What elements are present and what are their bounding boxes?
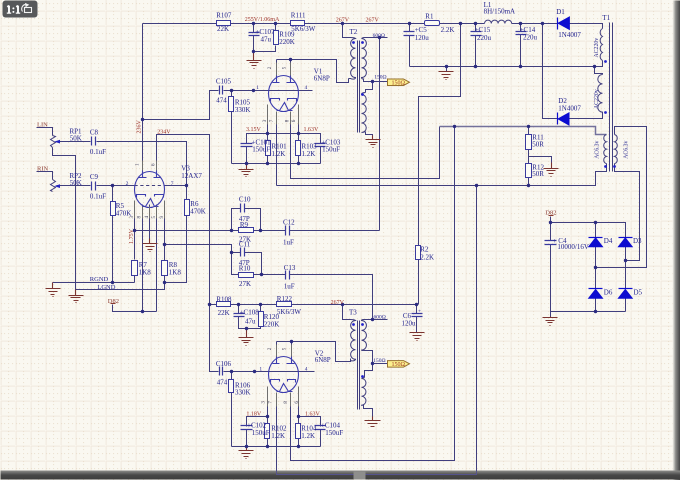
- wire R2 feed from B+: [419, 24, 461, 246]
- wire R5 top lead: [112, 186, 114, 202]
- ground at C6: [410, 333, 425, 341]
- wire V1 heater left to heater net: [276, 113, 278, 186]
- wire T3 tap drop to lower secondary: [364, 351, 373, 378]
- junction R5 bottom RGND: [111, 281, 114, 284]
- wire V3 plate1 236V riser to R107: [142, 24, 144, 171]
- wire C15 leads: [475, 24, 477, 67]
- junction C102 bottom: [245, 445, 248, 448]
- svg-text:1.2K: 1.2K: [272, 150, 286, 158]
- svg-text:1.18V: 1.18V: [246, 411, 262, 417]
- wire R105 top lead: [231, 91, 233, 97]
- tube V3 envelope: [135, 172, 165, 208]
- capacitor C104 electrolytic: [315, 426, 326, 430]
- transformer T1 left heater winding: [604, 135, 607, 164]
- svg-text:LGND: LGND: [97, 284, 115, 291]
- junction T2 600ohm feedback: [378, 36, 381, 39]
- transformer T2 secondary winding lower: [362, 93, 367, 133]
- phase dot T3 secondary lower: [361, 375, 364, 378]
- resistor R6: [185, 200, 190, 216]
- svg-text:AC6.3v: AC6.3v: [595, 141, 601, 159]
- wire T2 tap jog to lower secondary: [366, 82, 373, 93]
- resistor R2: [416, 246, 421, 260]
- svg-text:600Ω: 600Ω: [374, 314, 386, 320]
- svg-text:267V: 267V: [336, 17, 350, 23]
- ground at C108: [239, 329, 254, 346]
- wire R103 leads: [298, 134, 300, 164]
- svg-text:330K: 330K: [235, 389, 251, 397]
- tube V2 pin stubs: [268, 345, 299, 407]
- phase dot T1 right heater: [613, 165, 616, 168]
- ground at C107: [247, 52, 262, 69]
- phase dot T2 primary: [352, 41, 355, 44]
- resistor R11: [526, 135, 532, 150]
- svg-text:C11: C11: [239, 240, 251, 248]
- svg-text:2.2K: 2.2K: [420, 253, 434, 261]
- junction C108 top: [237, 303, 240, 306]
- wire C14 leads: [520, 24, 522, 67]
- wire D3 D5 column: [625, 247, 627, 312]
- resistor R102: [265, 424, 270, 439]
- wire RP2 wiper to C9: [57, 185, 91, 187]
- diode D1 1N4007: [557, 18, 559, 30]
- phase dot T2 secondary: [361, 41, 364, 44]
- wire V1 cathode upper right C103: [268, 134, 321, 144]
- wire V1 plate pins to T2 primary: [277, 60, 349, 83]
- svg-text:6N8P: 6N8P: [315, 356, 331, 364]
- window right shadow: [0, 0, 1, 1]
- wire R8 top lead: [164, 245, 166, 261]
- svg-text:220K: 220K: [264, 321, 280, 329]
- junction C5 top: [408, 22, 411, 25]
- junction D2 feed tap: [541, 22, 544, 25]
- resistor R104: [296, 424, 301, 439]
- wire ground stem below C4: [550, 312, 552, 317]
- svg-text:R107: R107: [216, 12, 232, 20]
- svg-text:D5: D5: [634, 288, 643, 296]
- phase dot T2 secondary lower: [361, 93, 364, 96]
- wire R106 top lead: [231, 372, 233, 380]
- junction D4 top: [594, 221, 597, 224]
- tube V1 plates: [273, 76, 295, 83]
- wire V2 cathode upper left C102: [247, 417, 268, 427]
- capacitor C13: [286, 271, 290, 280]
- wire R7 bottom to RGND: [134, 275, 136, 283]
- wire V2 heater loop redrawn over bottom bar: [277, 471, 477, 475]
- junction C15 top: [474, 22, 477, 25]
- net label D82 stub right: [549, 215, 554, 217]
- junction C101 bottom: [245, 162, 248, 165]
- wire heater net Y185 to T1 heater winding: [277, 164, 607, 186]
- capacitor C11: [241, 248, 245, 257]
- wire R8 bottom lead: [164, 275, 166, 283]
- wire V2 plate pins to T3 primary: [277, 342, 351, 362]
- svg-text:T3: T3: [349, 309, 357, 317]
- tube V2 envelope: [269, 357, 299, 393]
- junction C9 R5: [111, 184, 114, 187]
- svg-text:C105: C105: [216, 78, 232, 86]
- wire C101 bottom lead: [246, 147, 248, 164]
- ground at V2 cathode: [239, 447, 254, 459]
- wire T1 right heater winding top: [596, 127, 647, 268]
- junction R11 top: [527, 125, 530, 128]
- svg-text:220u: 220u: [477, 34, 492, 42]
- potentiometer RP1: [51, 136, 56, 148]
- zoom chip 1:1: [3, 1, 38, 18]
- wire D82 net label stub: [113, 305, 157, 312]
- wire R12 bottom to Y185: [528, 178, 530, 186]
- svg-text:R111: R111: [291, 12, 306, 20]
- wire T2 secondary 600ohm stub: [364, 37, 388, 39]
- transformer T1 lower primary winding: [598, 75, 603, 113]
- resistor R5: [111, 202, 116, 216]
- diode D4: [589, 237, 603, 239]
- capacitor C14 electrolytic: [516, 32, 527, 35]
- svg-text:C106: C106: [216, 360, 232, 368]
- svg-text:150Ω: 150Ω: [373, 358, 385, 364]
- wire 236V junction to C105: [143, 91, 219, 120]
- junction D82 net V3 heater: [141, 310, 144, 313]
- svg-text:150Ω: 150Ω: [392, 81, 406, 87]
- junction C14 bottom: [519, 65, 522, 68]
- svg-text:1uF: 1uF: [283, 238, 294, 246]
- transformer T1 upper primary winding: [600, 29, 602, 61]
- wire C9 to V3 grid pin2: [97, 185, 135, 187]
- resistor R8: [162, 261, 168, 276]
- svg-text:1.2K: 1.2K: [302, 150, 316, 158]
- svg-text:C10: C10: [239, 196, 251, 204]
- junction heater Y185 V2 riser: [475, 184, 478, 187]
- svg-text:150uF: 150uF: [322, 146, 340, 154]
- tube V3 heater: [143, 199, 159, 207]
- svg-text:1uF: 1uF: [284, 282, 295, 290]
- port 150ohm T3: [388, 361, 410, 369]
- svg-text:T1: T1: [602, 14, 610, 22]
- junction C4 top: [549, 221, 552, 224]
- junction R106 top: [230, 370, 233, 373]
- wire R6 top lead: [186, 186, 188, 200]
- diode D3: [619, 237, 633, 239]
- svg-text:474: 474: [216, 97, 227, 105]
- capacitor C5 electrolytic: [404, 32, 415, 36]
- capacitor C106: [220, 367, 223, 376]
- wire V3 pin9 cathode to ground: [149, 205, 151, 239]
- transformer T3 secondary winding upper: [362, 320, 367, 351]
- window bottom scrollbar notch: [354, 472, 366, 480]
- wire R106 bottom to cathode rail: [231, 393, 233, 447]
- svg-text:255V/1.06mA: 255V/1.06mA: [245, 17, 280, 23]
- junction R104 bottom: [297, 445, 300, 448]
- wire R104 leads: [298, 417, 300, 447]
- capacitor C9: [92, 182, 96, 191]
- svg-text:+C5: +C5: [415, 26, 428, 34]
- wire T1 lower primary bottom to D2: [569, 113, 603, 119]
- svg-text:1: 1: [256, 85, 259, 91]
- capacitor C107 electrolytic: [249, 33, 260, 36]
- wire C108 bottom to rail: [239, 317, 261, 329]
- svg-text:1.2K: 1.2K: [271, 432, 285, 440]
- wire B+ drop to D2 cathode: [543, 24, 558, 119]
- junction R102 top: [266, 415, 269, 418]
- wire C107 bottom and rail to R109: [254, 36, 276, 52]
- resistor R122: [277, 302, 292, 307]
- wire C5 bottom lead: [409, 36, 411, 67]
- wire R120 top lead: [260, 305, 262, 312]
- wire D1 anode to T1 primary: [570, 24, 603, 29]
- wire C6 top lead: [416, 305, 418, 314]
- svg-text:5K6/3W: 5K6/3W: [277, 308, 302, 316]
- ground at C4: [543, 317, 558, 326]
- svg-text:27K: 27K: [239, 280, 251, 288]
- ground at V3 cathode: [143, 239, 158, 252]
- tube V3 pin stubs: [135, 161, 165, 219]
- junction R8 bottom: [163, 281, 166, 284]
- svg-text:1K8: 1K8: [139, 268, 152, 276]
- resistor R9: [239, 228, 254, 233]
- wire V2 cathode lower rail: [232, 446, 321, 448]
- wire R2 bottom to C6 node: [418, 260, 420, 305]
- wire C103 bottom lead: [320, 147, 322, 164]
- junction return rail ground: [445, 65, 448, 68]
- potentiometer RP2: [51, 180, 56, 192]
- svg-text:R108: R108: [216, 295, 232, 303]
- wire M1 feedback line V3 cathode to C12: [135, 230, 286, 232]
- junction T2 150ohm tap: [371, 80, 374, 83]
- transformer T3 secondary winding lower: [362, 378, 366, 406]
- transformer T1 core: [610, 23, 613, 172]
- junction 236V branch: [141, 118, 144, 121]
- svg-text:1: 1: [259, 366, 262, 372]
- svg-text:1K8: 1K8: [169, 268, 182, 276]
- junction R103 bottom: [297, 162, 300, 165]
- tube V3 grids: [137, 195, 164, 198]
- capacitor C102 electrolytic: [241, 426, 253, 430]
- junction C11 right: [260, 273, 263, 276]
- svg-text:T2: T2: [350, 28, 358, 36]
- wire V3 pin3 to M1: [134, 205, 136, 231]
- potentiometer RP2 wiper arrow: [54, 184, 60, 188]
- tube V1 grids: [271, 99, 297, 102]
- wire V1 heater right to AC heater line: [291, 113, 440, 179]
- svg-text:267V: 267V: [331, 300, 345, 306]
- capacitor C12: [286, 226, 290, 236]
- diode D2 1N4007: [557, 113, 559, 125]
- svg-text:234V: 234V: [157, 129, 171, 135]
- wire R7 top lead from M1: [134, 231, 136, 260]
- junction R2 C6 node: [415, 303, 418, 306]
- wire C6 bottom to ground: [416, 317, 418, 333]
- svg-text:LIN: LIN: [37, 121, 48, 128]
- svg-text:C9: C9: [90, 173, 99, 181]
- junction R102 bottom: [266, 445, 269, 448]
- svg-text:AC220v: AC220v: [594, 38, 600, 58]
- wire V3 pin8 to M2: [164, 205, 166, 245]
- wire D4 column: [595, 223, 597, 312]
- wire V2 heater right loop to AC line: [291, 127, 455, 461]
- phase dot T3 secondary: [361, 323, 364, 326]
- wire R11 R12 middle junction to ground: [529, 149, 552, 164]
- wire supply return rail: [410, 61, 603, 67]
- svg-text:47u: 47u: [245, 317, 256, 325]
- wire C106 to V2 grid pin1: [224, 371, 315, 373]
- wire T2 150ohm tap to port: [364, 79, 388, 82]
- svg-text:267V: 267V: [366, 18, 380, 24]
- wire V3 heater pins to D82 net: [143, 205, 157, 312]
- junction C14 top: [519, 22, 522, 25]
- svg-text:1.2K: 1.2K: [301, 432, 315, 440]
- svg-text:R122: R122: [277, 295, 293, 303]
- resistor R105: [229, 97, 234, 112]
- tube V2 grids: [271, 380, 296, 383]
- svg-text:AC220v: AC220v: [594, 89, 600, 109]
- resistor R120: [259, 312, 264, 327]
- wire C108 top lead: [238, 305, 240, 314]
- svg-text:1N4007: 1N4007: [558, 31, 581, 39]
- svg-text:5K6/3W: 5K6/3W: [291, 25, 316, 33]
- wire V3 grid dashed inside envelope: [135, 185, 165, 187]
- tube V1 heater: [277, 103, 293, 111]
- wire RIN port stub to RP2: [37, 172, 53, 180]
- svg-text:50K: 50K: [70, 135, 82, 143]
- capacitor C10: [241, 204, 245, 213]
- svg-text:4: 4: [305, 367, 308, 373]
- ground LGND: [69, 290, 84, 303]
- svg-text:+C108: +C108: [240, 309, 260, 317]
- svg-text:1.75V: 1.75V: [129, 228, 135, 244]
- junction R105 top: [230, 89, 233, 92]
- svg-text:3.15V: 3.15V: [246, 127, 262, 133]
- wire T3 secondary 600ohm stub: [364, 319, 388, 321]
- wire top rail to R107: [143, 23, 217, 25]
- junction R103 top: [297, 132, 300, 135]
- junction 234V column bottom rail: [208, 303, 211, 306]
- ground at heater divider: [544, 163, 559, 177]
- svg-text:150Ω: 150Ω: [392, 362, 406, 368]
- wire bottom channel 304V rail R108 to R122: [210, 304, 417, 306]
- svg-text:7: 7: [171, 181, 174, 187]
- wire R10 branch: [232, 253, 239, 275]
- wire C4 bottom lead: [550, 245, 552, 312]
- svg-text:C13: C13: [284, 264, 296, 272]
- resistor R111: [291, 21, 305, 26]
- junction T3 600ohm feedback: [371, 318, 374, 321]
- resistor R108: [217, 302, 231, 307]
- ground RGND: [46, 283, 61, 297]
- wire T1 lower primary top lead: [595, 67, 603, 75]
- junction V2 plate pins: [290, 340, 293, 343]
- svg-text:150Ω: 150Ω: [374, 74, 386, 80]
- transformer T3 core: [358, 321, 360, 410]
- svg-text:236V: 236V: [136, 120, 142, 134]
- wire T3 port stub: [373, 363, 388, 365]
- wire C10 loop over R9: [232, 209, 261, 231]
- svg-text:150uF: 150uF: [252, 146, 270, 154]
- resistor R7: [132, 261, 138, 276]
- net label D82 stub left: [111, 303, 116, 305]
- capacitor C108 electrolytic: [234, 314, 245, 317]
- wire R10 right to C13: [254, 274, 286, 276]
- wire R102 leads: [267, 417, 269, 447]
- ground at T3 secondary: [365, 417, 381, 429]
- wire C13 right to T3 feedback: [290, 275, 373, 320]
- svg-text:220K: 220K: [279, 38, 295, 46]
- wire LGND rail: [76, 283, 165, 290]
- svg-text:R10: R10: [239, 264, 251, 272]
- svg-text:+C15: +C15: [475, 26, 491, 34]
- svg-text:D1: D1: [556, 8, 565, 16]
- resistor R1: [425, 21, 440, 26]
- inductor L1: [485, 20, 512, 23]
- junction V2 grid node: [253, 370, 256, 373]
- svg-text:8H/150mA: 8H/150mA: [484, 8, 515, 16]
- junction 267V T2 tap: [341, 22, 344, 25]
- junction C11 left: [230, 251, 233, 254]
- capacitor C103 electrolytic: [315, 144, 326, 147]
- junction V1 plate pins: [289, 58, 292, 61]
- junction R120 top: [259, 303, 262, 306]
- junction C10 right: [259, 229, 262, 232]
- capacitor C101 electrolytic: [241, 144, 253, 147]
- diode D5: [619, 288, 633, 290]
- junction T1 primary centre tap: [593, 65, 596, 68]
- wire C4 top lead: [550, 223, 552, 241]
- wire RGND rail: [53, 282, 135, 284]
- svg-text:0.1uF: 0.1uF: [90, 192, 106, 200]
- svg-text:R9: R9: [240, 221, 249, 229]
- svg-text:12AX7: 12AX7: [181, 172, 202, 180]
- svg-text:+: +: [418, 309, 421, 315]
- capacitor C8: [92, 137, 96, 146]
- junction R12 bottom: [527, 184, 530, 187]
- ground at T2 secondary: [366, 136, 381, 148]
- svg-text:50R: 50R: [532, 170, 544, 178]
- wire V1 cathode upper left C101: [247, 134, 268, 144]
- svg-text:150uF: 150uF: [252, 429, 270, 437]
- svg-text:D3: D3: [633, 237, 642, 245]
- diode D6: [589, 288, 603, 290]
- svg-text:22K: 22K: [218, 309, 230, 317]
- svg-text:600Ω: 600Ω: [373, 33, 385, 39]
- transformer T3 primary winding: [351, 320, 356, 361]
- wire R101 leads: [267, 134, 269, 164]
- wire bridge bottom rail: [551, 311, 626, 313]
- wire T3 primary top from 267V node: [343, 305, 351, 320]
- wire bridge top rail: [551, 223, 626, 238]
- svg-text:50R: 50R: [532, 141, 544, 149]
- wire T2 secondary bottom to ground: [366, 132, 373, 136]
- wire B+ rail right section with L1: [512, 23, 559, 25]
- resistor R12: [526, 164, 532, 178]
- svg-text:6N8P: 6N8P: [314, 75, 330, 83]
- svg-text:0.1uF: 0.1uF: [90, 148, 106, 156]
- tube V2 plates: [273, 357, 295, 364]
- wire V1 cathode pins: [268, 107, 299, 134]
- junction R109 top: [274, 22, 277, 25]
- svg-text:120u: 120u: [402, 319, 417, 327]
- wire ground stem on return rail: [446, 67, 448, 72]
- junction V3 pin7 R6: [185, 184, 188, 187]
- wire T2 feedback drop to M1: [379, 38, 381, 231]
- wire V3 plate2 234V to C106 column: [157, 135, 219, 372]
- junction C107 R109 bottom: [252, 50, 255, 53]
- zoom chip rotate icon: [22, 3, 32, 13]
- capacitor C4 electrolytic: [545, 241, 557, 245]
- junction M1 R7: [133, 229, 136, 232]
- junction R101 top: [266, 132, 269, 135]
- svg-text:D4: D4: [604, 237, 613, 245]
- window bottom bar: [0, 0, 1, 1]
- svg-text:220u: 220u: [523, 34, 538, 42]
- resistor R109: [274, 31, 279, 45]
